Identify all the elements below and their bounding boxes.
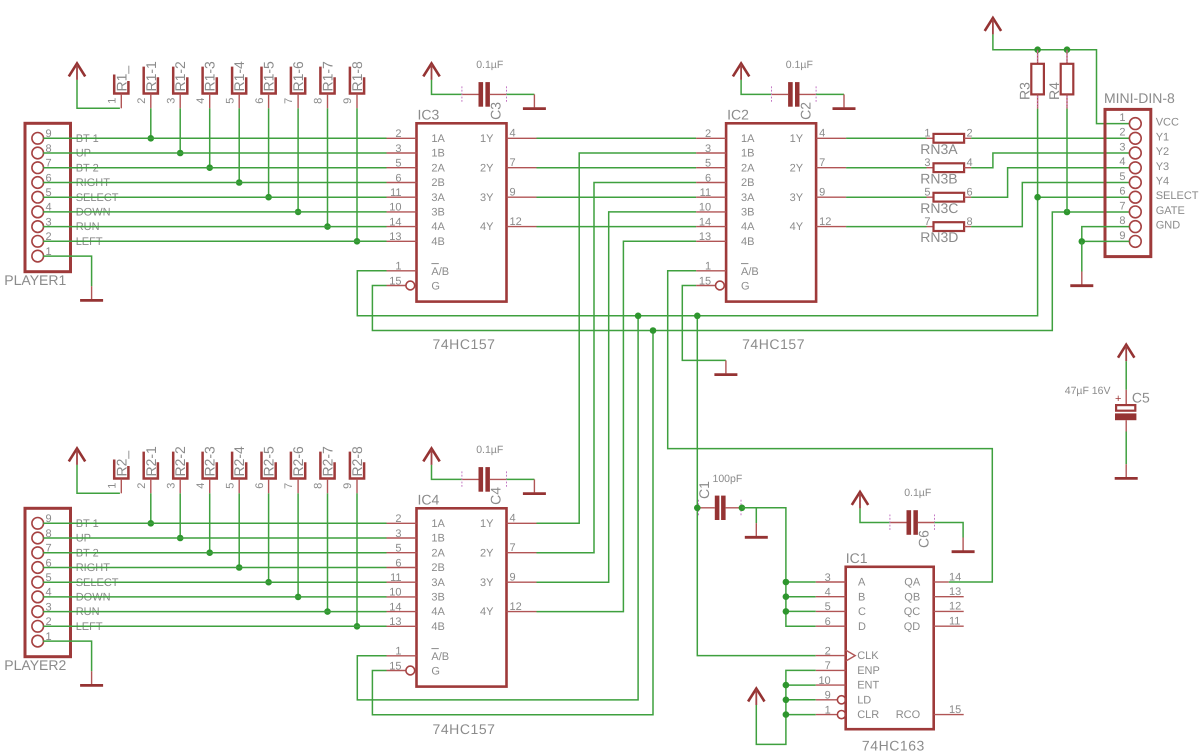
svg-text:RN3D: RN3D: [920, 229, 958, 245]
svg-text:IC1: IC1: [846, 550, 868, 566]
wire RN3A to Y1: [971, 137, 1129, 139]
svg-text:15: 15: [949, 704, 961, 716]
svg-text:C4: C4: [488, 487, 504, 505]
capacitor C3: [462, 82, 507, 107]
VCC symbol top right: [985, 18, 1001, 35]
svg-text:Y2: Y2: [1156, 146, 1169, 158]
wire array pin to row: [297, 108, 299, 212]
svg-text:R2-5: R2-5: [261, 446, 277, 477]
svg-text:6: 6: [395, 557, 401, 569]
junction: [148, 520, 155, 527]
wire RUN: [43, 611, 386, 613]
junction: [295, 594, 302, 601]
wire SELECT: [43, 196, 386, 198]
wire RUN: [43, 226, 386, 228]
svg-text:4: 4: [819, 128, 825, 140]
wire array pin to row: [356, 493, 358, 626]
R2_ pin 1 stub: [120, 479, 122, 494]
svg-text:3B: 3B: [431, 207, 444, 219]
svg-text:5: 5: [825, 601, 831, 613]
svg-text:5: 5: [224, 98, 236, 104]
svg-text:R1-6: R1-6: [290, 61, 306, 92]
svg-text:4B: 4B: [431, 621, 444, 633]
svg-text:3Y: 3Y: [790, 192, 804, 204]
svg-text:74HC157: 74HC157: [742, 336, 805, 352]
svg-text:7: 7: [924, 216, 930, 228]
wire BT 2: [43, 552, 386, 554]
junction: [324, 223, 331, 230]
svg-text:8: 8: [313, 98, 325, 104]
wire array pin to row: [297, 493, 299, 597]
ground: [523, 94, 546, 108]
svg-text:9: 9: [342, 483, 354, 489]
svg-text:0.1µF: 0.1µF: [476, 59, 503, 71]
svg-text:9: 9: [825, 690, 831, 702]
junction: [783, 608, 790, 615]
svg-text:3B: 3B: [431, 592, 444, 604]
wire IC2 1Y to RN3A: [846, 137, 926, 139]
VCC symbol: [69, 448, 85, 465]
svg-text:7: 7: [825, 660, 831, 672]
wire array pin to row: [209, 108, 211, 167]
resistor R1-8: [342, 61, 365, 104]
connector MINI-DIN-8: [1104, 90, 1199, 256]
svg-text:1A: 1A: [741, 133, 755, 145]
svg-text:0.1µF: 0.1µF: [904, 487, 931, 499]
svg-text:14: 14: [949, 571, 961, 583]
resistor R1-1: [136, 61, 159, 104]
svg-text:3: 3: [705, 143, 711, 155]
wire C6 to ground: [935, 523, 964, 538]
wire IC4 2Y to IC2 2B: [537, 183, 697, 553]
svg-text:GATE: GATE: [1156, 205, 1185, 217]
svg-text:2A: 2A: [431, 547, 445, 559]
svg-text:QB: QB: [904, 591, 920, 603]
svg-text:7: 7: [819, 157, 825, 169]
svg-text:IC2: IC2: [727, 106, 749, 122]
R2-4 pin stub: [238, 479, 240, 494]
svg-text:1: 1: [395, 646, 401, 658]
svg-text:11: 11: [700, 187, 711, 199]
wire IC2 4Y to RN3D: [846, 226, 926, 228]
wire VCC to ENP: [756, 670, 815, 744]
svg-text:14: 14: [699, 216, 711, 228]
svg-text:+: +: [1115, 393, 1121, 405]
svg-text:R1-7: R1-7: [320, 61, 336, 92]
svg-text:3A: 3A: [431, 577, 445, 589]
svg-text:4: 4: [195, 483, 207, 489]
svg-text:QA: QA: [904, 577, 921, 589]
junction: [1064, 209, 1071, 216]
svg-text:R1_: R1_: [113, 66, 129, 92]
svg-text:100pF: 100pF: [713, 473, 743, 485]
svg-text:6: 6: [395, 172, 401, 184]
svg-text:R1-3: R1-3: [202, 61, 218, 92]
svg-text:74HC163: 74HC163: [862, 737, 925, 753]
svg-text:R1-5: R1-5: [261, 61, 277, 92]
wire IC3 4Y to IC2 4A: [537, 226, 697, 228]
svg-text:ENP: ENP: [857, 665, 880, 677]
svg-text:2B: 2B: [431, 177, 444, 189]
wire array pin to row: [327, 108, 329, 226]
capacitor C2: [772, 82, 817, 107]
R1_ pin 1 stub: [120, 94, 122, 109]
connector PLAYER1: [4, 123, 70, 288]
resistor R1-6: [283, 61, 306, 104]
wire pin1 to ground: [43, 641, 92, 671]
resistor array R2_ common pin: [107, 451, 130, 489]
svg-text:47µF 16V: 47µF 16V: [1065, 385, 1111, 397]
wire UP: [43, 537, 386, 539]
connector PLAYER2: [4, 508, 70, 673]
svg-text:2: 2: [136, 483, 148, 489]
svg-text:RCO: RCO: [896, 709, 921, 721]
wire IC4 G branch: [372, 331, 653, 715]
svg-text:5: 5: [395, 543, 401, 555]
svg-text:ENT: ENT: [857, 680, 879, 692]
svg-text:G: G: [741, 281, 750, 293]
wire RN3B to Y2: [971, 153, 1129, 168]
R2-8 pin stub: [356, 479, 358, 494]
svg-text:9: 9: [342, 98, 354, 104]
svg-text:2A: 2A: [741, 162, 755, 174]
wire LEFT: [43, 625, 386, 627]
R1-4 pin stub: [238, 94, 240, 109]
svg-text:2B: 2B: [741, 177, 754, 189]
junction: [236, 179, 243, 186]
wire RIGHT: [43, 182, 386, 184]
svg-text:14: 14: [389, 216, 401, 228]
svg-text:3: 3: [165, 98, 177, 104]
svg-text:6: 6: [254, 98, 266, 104]
wire BT 2: [43, 167, 386, 169]
junction C1 left: [694, 505, 701, 512]
svg-text:4A: 4A: [431, 606, 445, 618]
VCC symbol: [69, 63, 85, 80]
svg-text:7: 7: [283, 483, 295, 489]
svg-text:GND: GND: [1156, 220, 1181, 232]
wire VCC to array common: [77, 465, 120, 493]
svg-text:R2-6: R2-6: [290, 446, 306, 477]
wire G horizontal: [372, 212, 1129, 331]
wire cap to ground: [507, 478, 535, 480]
R2-6 pin stub: [297, 479, 299, 494]
junction: [635, 313, 642, 320]
svg-text:LD: LD: [857, 694, 871, 706]
wire VCC to C5: [1125, 361, 1127, 390]
svg-text:2Y: 2Y: [480, 547, 494, 559]
svg-text:11: 11: [949, 616, 960, 628]
svg-text:4B: 4B: [431, 236, 444, 248]
junction: [206, 164, 213, 171]
junction: [783, 579, 790, 586]
svg-text:R3: R3: [1016, 82, 1032, 100]
wire array pin to row: [268, 108, 270, 197]
svg-text:0.1µF: 0.1µF: [476, 444, 503, 456]
junction: [177, 150, 184, 157]
svg-text:4Y: 4Y: [480, 221, 494, 233]
wire IC2 A/B to IC1 QA: [668, 271, 993, 582]
wire array pin to row: [356, 108, 358, 241]
wire RIGHT: [43, 567, 386, 569]
svg-text:1B: 1B: [431, 148, 444, 160]
R2-2 pin stub: [179, 479, 181, 494]
resistor RN3A: [920, 128, 972, 157]
VCC symbol IC1: [748, 689, 764, 706]
wire VCC to cap: [432, 465, 462, 480]
wire R4 to GATE: [1066, 109, 1068, 212]
resistor R3: [1016, 50, 1044, 109]
junction: [206, 549, 213, 556]
svg-text:74HC157: 74HC157: [433, 721, 496, 737]
svg-text:R1-2: R1-2: [172, 61, 188, 92]
wire SELECT: [43, 581, 386, 583]
R1-8 pin stub: [356, 94, 358, 109]
svg-text:12: 12: [510, 216, 522, 228]
wire to IC1 input: [786, 596, 816, 598]
wire to IC1 pin: [786, 684, 816, 686]
wire to IC1 input: [786, 581, 816, 583]
resistor R4: [1046, 50, 1073, 109]
svg-text:1: 1: [395, 261, 401, 273]
svg-text:CLR: CLR: [857, 709, 879, 721]
svg-text:R2-2: R2-2: [172, 446, 188, 477]
svg-text:10: 10: [699, 202, 711, 214]
resistor RN3B: [920, 157, 972, 186]
junction: [694, 313, 701, 320]
svg-text:1B: 1B: [741, 148, 754, 160]
wire array pin to row: [327, 493, 329, 611]
svg-text:6: 6: [254, 483, 266, 489]
capacitor C1 100pF: [697, 496, 742, 520]
VCC symbol: [423, 63, 439, 80]
resistor RN3C: [920, 187, 972, 216]
svg-text:8: 8: [1119, 215, 1125, 227]
wire A/B horizontal: [357, 109, 1037, 316]
svg-text:3: 3: [1119, 141, 1125, 153]
wire BT 1: [43, 137, 386, 139]
svg-text:1: 1: [107, 98, 119, 104]
svg-text:5: 5: [395, 158, 401, 170]
svg-text:R2-3: R2-3: [202, 446, 218, 477]
wire GND pins: [1082, 227, 1130, 242]
svg-text:IC3: IC3: [418, 106, 440, 122]
svg-text:15: 15: [699, 275, 711, 287]
svg-text:3: 3: [825, 572, 831, 584]
svg-text:12: 12: [510, 601, 522, 613]
svg-text:R4: R4: [1046, 82, 1062, 100]
VCC symbol: [733, 63, 749, 80]
svg-text:2: 2: [825, 645, 831, 657]
svg-text:7: 7: [510, 542, 516, 554]
svg-text:4A: 4A: [741, 221, 755, 233]
svg-text:C1: C1: [696, 481, 712, 499]
svg-text:A: A: [858, 577, 866, 589]
svg-text:R1-4: R1-4: [231, 61, 247, 92]
wire VCC to MINI-DIN pin1: [993, 34, 1130, 123]
junction: [265, 579, 272, 586]
svg-text:11: 11: [390, 187, 401, 199]
svg-text:6: 6: [1119, 186, 1125, 198]
R2-3 pin stub: [209, 479, 211, 494]
svg-text:8: 8: [313, 483, 325, 489]
resistor array R1_ common pin: [107, 66, 130, 104]
svg-text:5: 5: [924, 187, 930, 199]
ground: [952, 538, 975, 552]
svg-text:1A: 1A: [431, 518, 445, 530]
wire cap to ground: [507, 93, 535, 95]
svg-text:15: 15: [389, 275, 401, 287]
svg-text:7: 7: [510, 157, 516, 169]
svg-text:4: 4: [825, 587, 831, 599]
svg-text:C5: C5: [1132, 389, 1150, 405]
svg-text:9: 9: [510, 187, 516, 199]
wire pin1 to ground: [43, 256, 92, 286]
svg-text:74HC157: 74HC157: [433, 336, 496, 352]
R2-1 pin stub: [150, 479, 152, 494]
svg-text:11: 11: [390, 572, 401, 584]
resistor R1-7: [313, 61, 336, 104]
svg-text:7: 7: [1119, 200, 1125, 212]
svg-text:13: 13: [389, 231, 401, 243]
wire LEFT: [43, 240, 386, 242]
op IC IC1 74HC163: [816, 550, 964, 754]
svg-text:R2-4: R2-4: [231, 446, 247, 477]
wire array pin to row: [179, 108, 181, 153]
R1-2 pin stub: [179, 94, 181, 109]
wire DOWN: [43, 211, 386, 213]
svg-text:10: 10: [818, 675, 830, 687]
svg-text:4B: 4B: [741, 236, 754, 248]
svg-text:B: B: [858, 591, 865, 603]
R1-5 pin stub: [268, 94, 270, 109]
svg-text:6: 6: [705, 172, 711, 184]
resistor R2-6: [283, 446, 306, 489]
R1-1 pin stub: [150, 94, 152, 109]
svg-text:R2-1: R2-1: [143, 446, 159, 477]
wire IC4 4Y to IC2 4B: [537, 241, 697, 611]
svg-text:R2-8: R2-8: [349, 446, 365, 477]
svg-text:13: 13: [699, 231, 711, 243]
op IC IC4 74HC157: [387, 491, 537, 737]
capacitor C4: [462, 467, 507, 492]
svg-text:10: 10: [389, 202, 401, 214]
capacitor C6: [890, 510, 935, 535]
junction: [783, 682, 790, 689]
wire IC2 G to ground: [682, 286, 726, 361]
junction: [354, 623, 361, 630]
wire to IC1 pin: [786, 714, 816, 716]
svg-text:12: 12: [819, 216, 831, 228]
junction: [177, 535, 184, 542]
wire to ground: [1081, 241, 1083, 271]
svg-text:7: 7: [283, 98, 295, 104]
svg-text:SELECT: SELECT: [1156, 190, 1199, 202]
ground: [745, 523, 768, 537]
svg-text:0.1µF: 0.1µF: [786, 59, 813, 71]
wire UP: [43, 152, 386, 154]
svg-text:1Y: 1Y: [480, 133, 494, 145]
R1-7 pin stub: [327, 94, 329, 109]
svg-text:14: 14: [389, 601, 401, 613]
svg-text:A/B: A/B: [431, 266, 449, 278]
svg-text:2: 2: [1119, 127, 1125, 139]
junction: [1064, 46, 1071, 53]
svg-text:RN3B: RN3B: [920, 170, 957, 186]
resistor R2-8: [342, 446, 365, 489]
svg-text:PLAYER2: PLAYER2: [4, 657, 66, 673]
svg-text:2B: 2B: [431, 562, 444, 574]
wire IC4 3Y to IC2 3B: [537, 212, 697, 582]
wire array pin to row: [268, 493, 270, 582]
wire array pin to row: [179, 493, 181, 538]
svg-text:15: 15: [389, 660, 401, 672]
svg-text:4Y: 4Y: [480, 606, 494, 618]
svg-text:VCC: VCC: [1156, 117, 1179, 129]
svg-text:3Y: 3Y: [480, 577, 494, 589]
VCC symbol C5: [1118, 345, 1134, 362]
R1-6 pin stub: [297, 94, 299, 109]
ground: [833, 94, 856, 108]
ground: [1115, 464, 1138, 478]
svg-text:C3: C3: [488, 102, 504, 120]
ground: [1070, 272, 1093, 286]
resistor R1-4: [224, 61, 247, 104]
resistor R1-3: [195, 61, 218, 104]
ground: [714, 360, 737, 374]
svg-text:C2: C2: [797, 102, 813, 120]
svg-text:RN3A: RN3A: [920, 141, 958, 157]
svg-text:1A: 1A: [431, 133, 445, 145]
svg-text:PLAYER1: PLAYER1: [4, 272, 66, 288]
svg-text:CLK: CLK: [857, 650, 879, 662]
svg-text:2: 2: [395, 128, 401, 140]
wire VCC to array common: [77, 80, 120, 108]
svg-text:5: 5: [1119, 171, 1125, 183]
wire IC3 3Y to IC2 3A: [537, 196, 697, 198]
svg-text:G: G: [431, 281, 440, 293]
ground: [80, 286, 103, 300]
svg-text:3Y: 3Y: [480, 192, 494, 204]
junction: [783, 593, 790, 600]
svg-text:1: 1: [705, 261, 711, 273]
resistor R2-2: [165, 446, 188, 489]
wire IC3 1Y to IC2 1A: [537, 137, 697, 139]
wire array pin to row: [209, 493, 211, 552]
svg-text:R1-1: R1-1: [143, 61, 159, 92]
svg-text:G: G: [431, 666, 440, 678]
wire RN3D to Y4: [971, 183, 1129, 227]
svg-text:12: 12: [949, 601, 961, 613]
wire IC3 2Y to IC2 2A: [537, 167, 697, 169]
wire VCC to cap: [741, 80, 771, 95]
junction: [236, 564, 243, 571]
junction: [783, 697, 790, 704]
svg-text:D: D: [858, 621, 866, 633]
R2-7 pin stub: [327, 479, 329, 494]
svg-text:4: 4: [510, 513, 516, 525]
wire SELECT to MINI-DIN: [1038, 196, 1130, 198]
wire array pin to row: [238, 493, 240, 567]
svg-text:3: 3: [924, 157, 930, 169]
svg-text:4Y: 4Y: [790, 221, 804, 233]
wire C1 ground tap: [755, 508, 757, 523]
R1-3 pin stub: [209, 94, 211, 109]
svg-text:5: 5: [705, 158, 711, 170]
svg-text:R2_: R2_: [113, 451, 129, 477]
wire VCC to cap: [432, 80, 462, 95]
resistor R2-1: [136, 446, 159, 489]
